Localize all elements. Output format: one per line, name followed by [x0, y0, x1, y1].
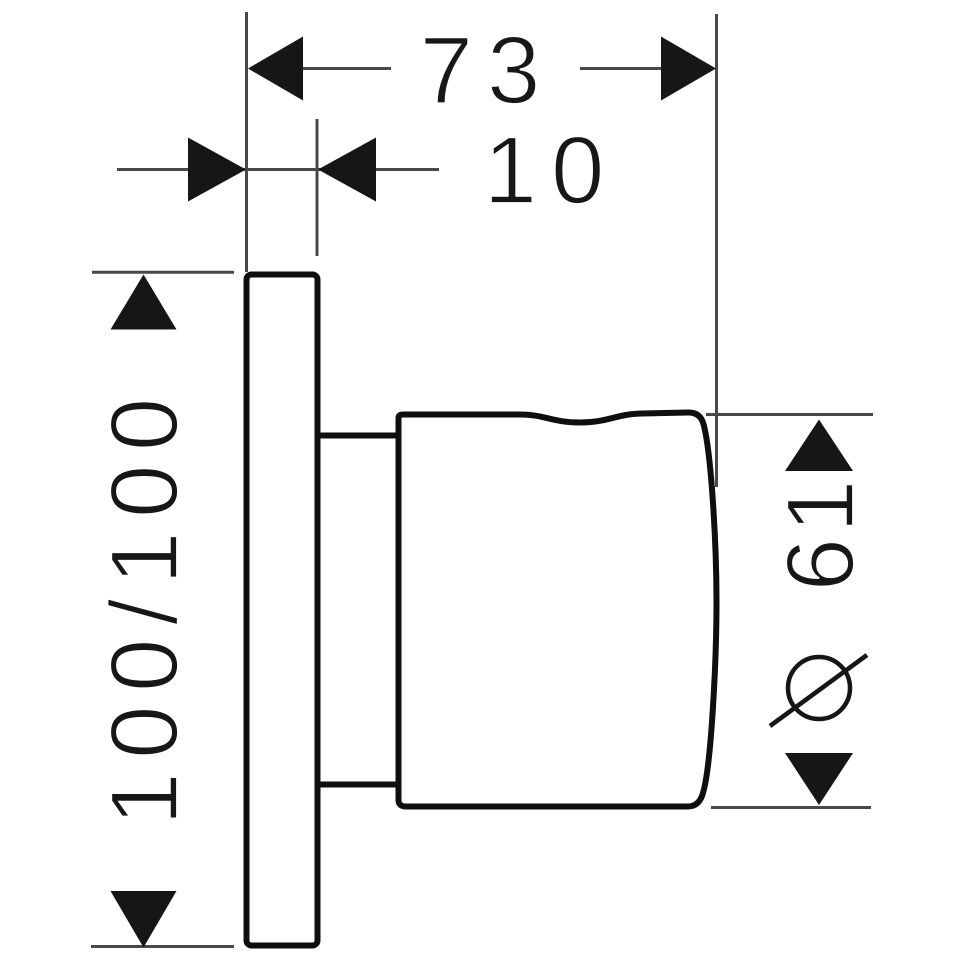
extension line right (knob tip, 73 dim) [715, 14, 718, 487]
extension line 100/100 top [92, 271, 234, 274]
dimension line 73 left segment [302, 67, 391, 70]
dimension line 73 right segment [580, 67, 662, 70]
extension line d61 bottom [711, 806, 871, 809]
extension line d61 top [706, 413, 873, 416]
svg-text:61: 61 [767, 475, 874, 592]
stem bottom line [317, 782, 398, 788]
svg-text:73: 73 [420, 17, 555, 124]
arrowhead 10 left [188, 138, 246, 202]
arrowhead 100/100 down [111, 891, 177, 948]
arrowhead 73 left [248, 37, 303, 101]
diameter symbol slash [770, 655, 867, 726]
svg-text:10: 10 [484, 117, 619, 224]
diameter symbol circle [788, 657, 850, 719]
arrowhead d61 down [785, 753, 853, 805]
arrowhead 100/100 up [111, 275, 177, 330]
extension line left (plate front face) [245, 12, 248, 272]
arrowhead 73 right [661, 37, 716, 101]
handle knob [399, 412, 717, 806]
arrowhead 10 right [318, 138, 376, 202]
extension line plate rear face (10 dim) [316, 119, 319, 256]
svg-text:100/100: 100/100 [91, 384, 198, 826]
extension line 100/100 bottom [91, 945, 234, 948]
dimension line 10 [117, 168, 439, 171]
arrowhead d61 up [785, 420, 853, 472]
wall plate [247, 275, 318, 946]
stem top line [317, 433, 398, 439]
